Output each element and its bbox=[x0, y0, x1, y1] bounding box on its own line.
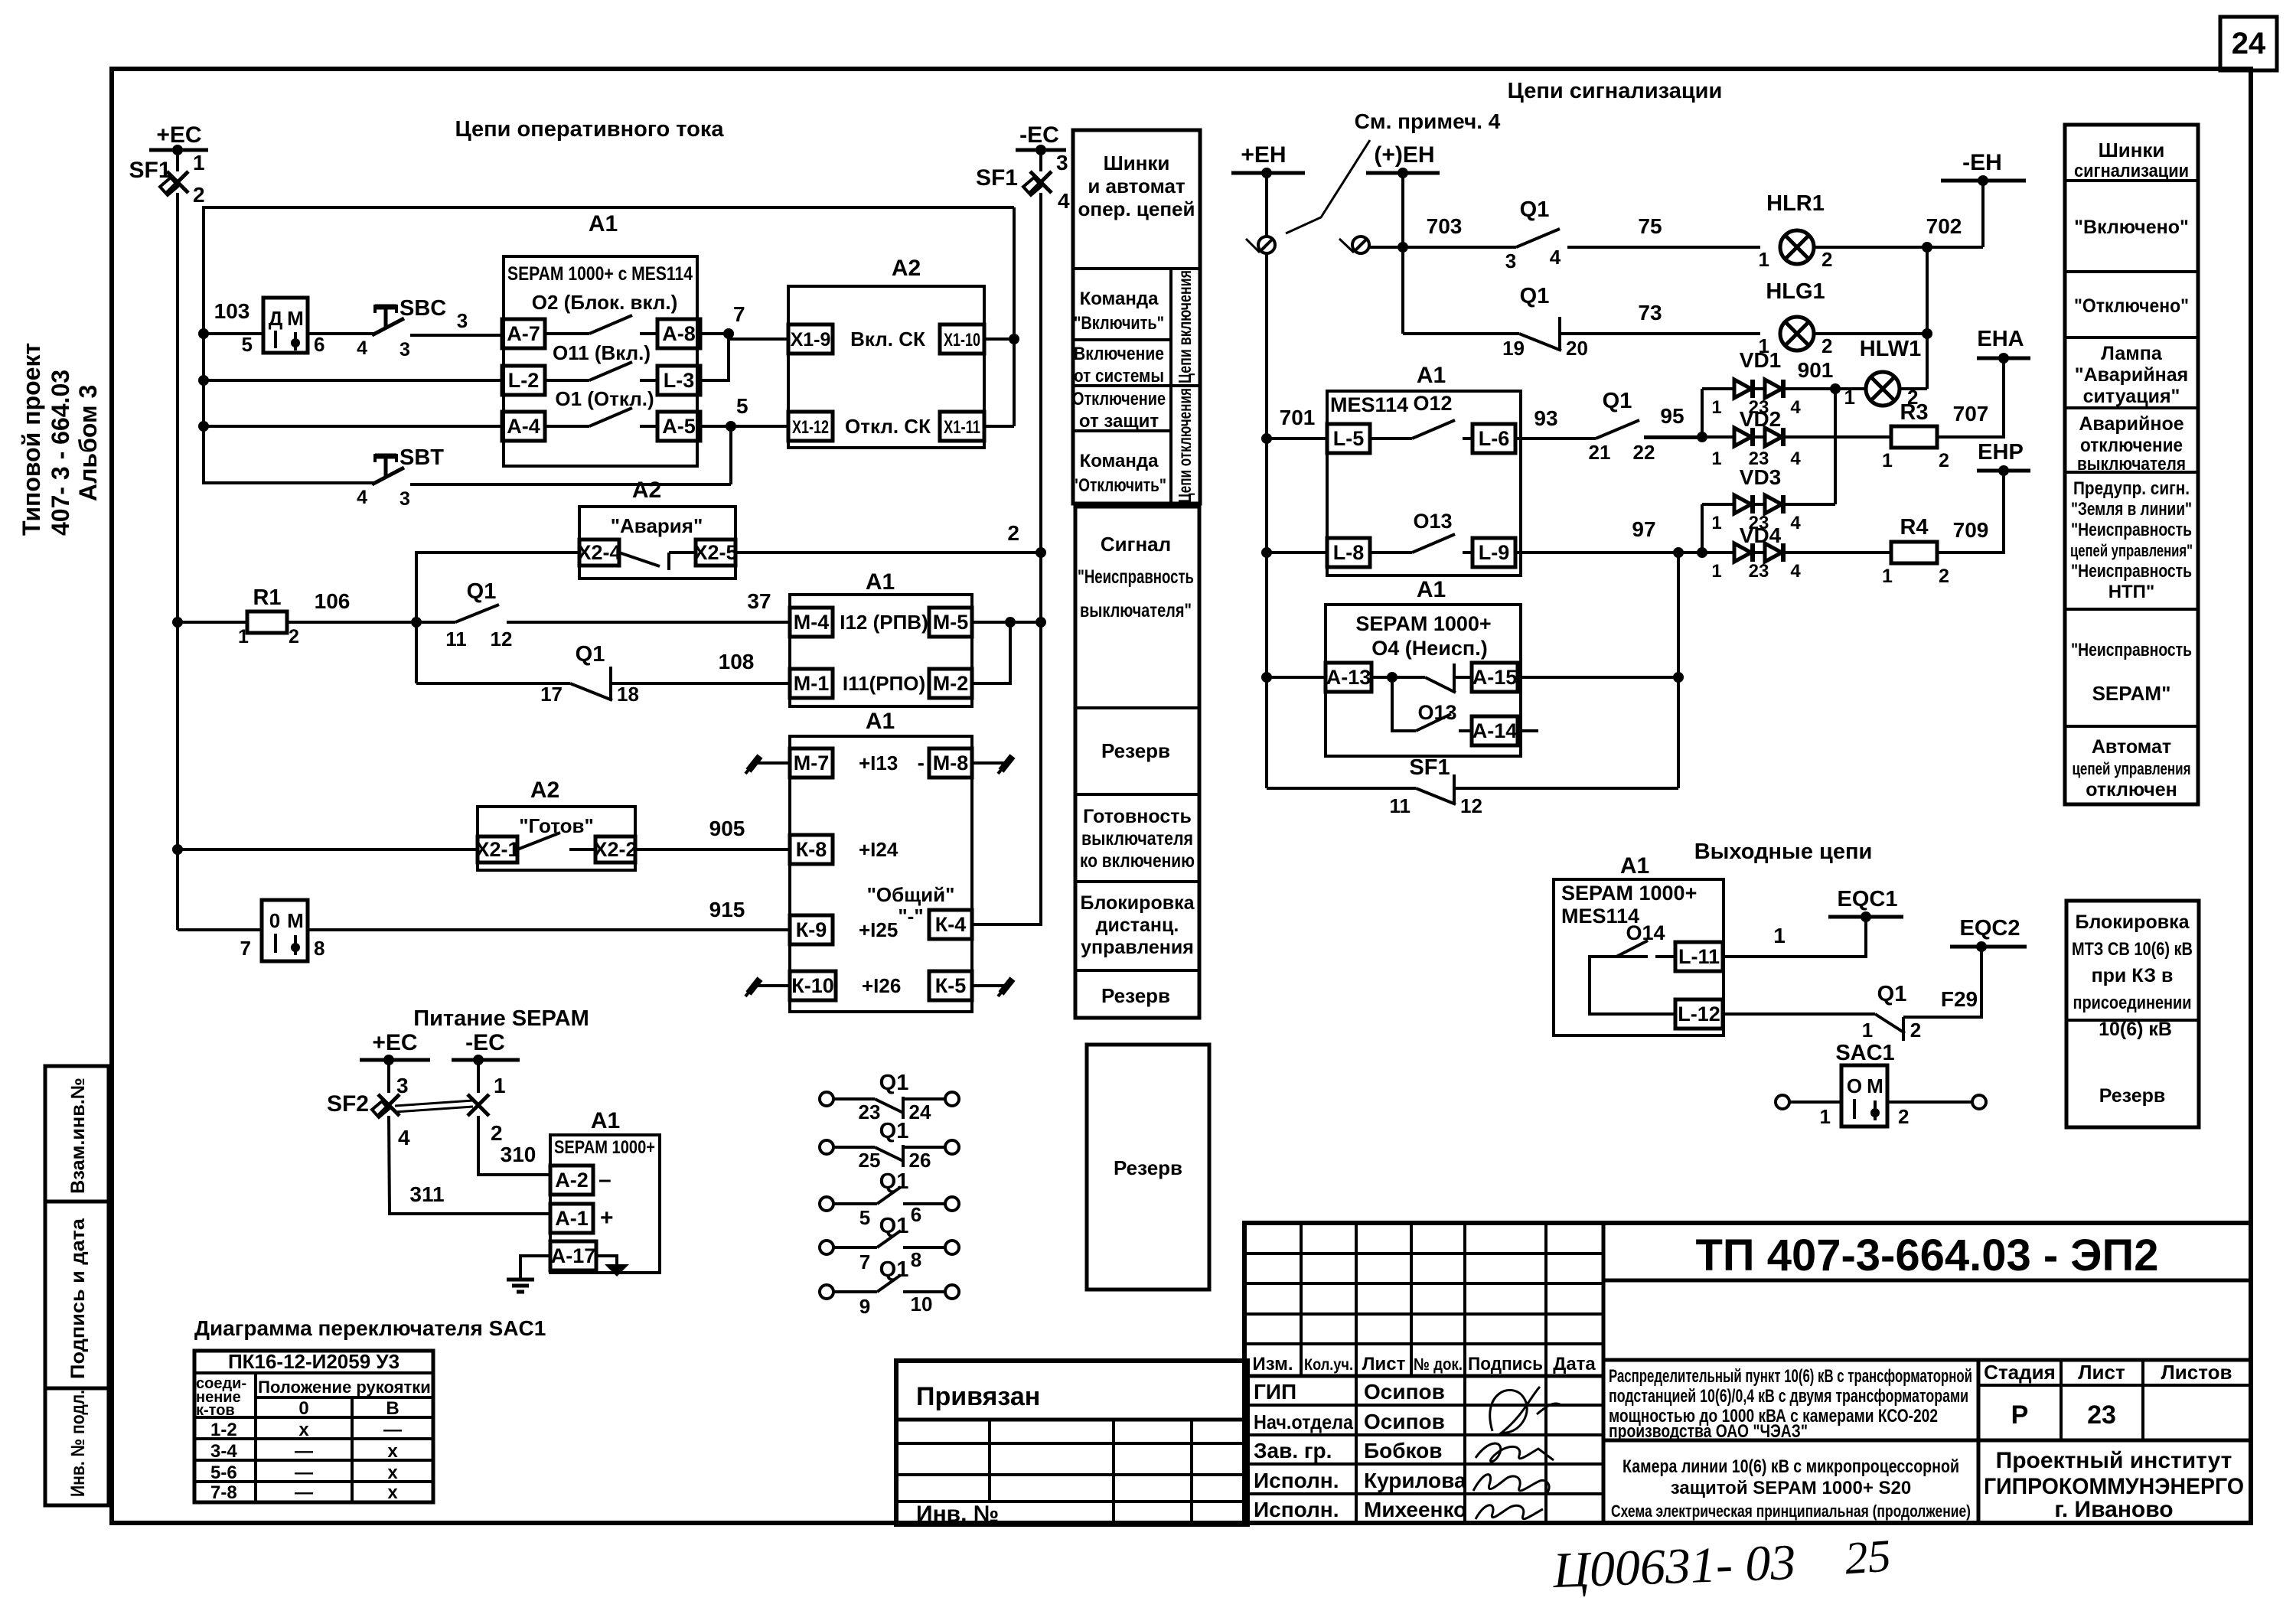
terminal L-12 bbox=[1675, 999, 1723, 1029]
bus +EC power bbox=[360, 1058, 430, 1062]
svg-text:Предупр. сигн.: Предупр. сигн. bbox=[2073, 478, 2190, 499]
wire L-3 up to node 7 bbox=[700, 334, 729, 380]
terminal A-8 bbox=[657, 319, 700, 348]
svg-text:К-4: К-4 bbox=[935, 913, 967, 936]
wire K-4 to right bus bbox=[972, 622, 1041, 924]
cell Gotovnost bbox=[1075, 793, 1199, 796]
terminal L-2 bbox=[502, 366, 545, 395]
svg-text:+ЕН: +ЕН bbox=[1241, 142, 1286, 168]
wire M-5 M-2 junction to right bus bbox=[972, 621, 1041, 624]
svg-text:L-2: L-2 bbox=[508, 369, 540, 392]
signature rows grid bbox=[1244, 1404, 1603, 1407]
svg-text:701: 701 bbox=[1280, 406, 1316, 429]
svg-text:21: 21 bbox=[1589, 441, 1611, 464]
ground left of A-17 bbox=[520, 1256, 550, 1280]
svg-text:Положение рукоятки: Положение рукоятки bbox=[258, 1378, 431, 1397]
relay box A1 SEPAM power bbox=[550, 1135, 660, 1273]
svg-text:Типовой проект: Типовой проект bbox=[18, 343, 45, 536]
wire 1 to EQC1 bbox=[1723, 917, 1866, 957]
svg-text:707: 707 bbox=[1953, 402, 1989, 426]
terminal L-3 bbox=[657, 366, 700, 395]
wire HLG1 to vert 2518 bbox=[1814, 332, 1927, 335]
row 5-6 bbox=[194, 1459, 433, 1462]
svg-text:К-10: К-10 bbox=[791, 974, 834, 997]
contact X2-4 X2-5 changeover bbox=[619, 553, 660, 566]
wire X1-10 to rail1325 bbox=[984, 337, 1014, 341]
wire 37 to M-4 bbox=[507, 621, 790, 624]
svg-text:VD2: VD2 bbox=[1740, 407, 1781, 431]
svg-text:Х2-1: Х2-1 bbox=[475, 838, 519, 861]
cell Vklyuchenie ot sistemy bbox=[1073, 384, 1200, 387]
cell Blokirovka dist bbox=[1075, 880, 1199, 883]
svg-text:Исполн.: Исполн. bbox=[1254, 1469, 1339, 1492]
svg-text:75: 75 bbox=[1638, 214, 1662, 238]
wire row L-2 bbox=[204, 379, 502, 382]
lamp HLR1 bbox=[1780, 230, 1814, 264]
svg-text:—: — bbox=[295, 1462, 313, 1483]
svg-text:3: 3 bbox=[400, 488, 410, 510]
wire main left bus from SF1 down bbox=[176, 193, 179, 930]
wire bus to X2-1 bbox=[178, 848, 478, 851]
contact O13 lower bbox=[1416, 714, 1451, 731]
svg-text:Изм.: Изм. bbox=[1252, 1354, 1293, 1374]
svg-text:MES114: MES114 bbox=[1330, 393, 1408, 416]
node +EH 701 row bbox=[1261, 433, 1272, 444]
wire row A-4 bbox=[204, 425, 502, 428]
svg-text:О: О bbox=[1847, 1074, 1862, 1097]
svg-text:А-8: А-8 bbox=[662, 322, 696, 345]
svg-text:2: 2 bbox=[1821, 334, 1832, 357]
wire 702 to -EH bbox=[1814, 246, 1983, 249]
terminal M-8 bbox=[929, 748, 972, 778]
wire +EH bus down bbox=[1265, 173, 1268, 788]
contact Q1 17-18 NC bbox=[416, 682, 570, 685]
svg-text:3: 3 bbox=[457, 309, 468, 332]
svg-text:х: х bbox=[387, 1462, 398, 1483]
svg-text:4: 4 bbox=[1058, 189, 1070, 213]
svg-text:905: 905 bbox=[709, 817, 745, 840]
wire 709 to EHP bbox=[1937, 471, 2004, 553]
svg-text:23: 23 bbox=[1749, 561, 1769, 582]
svg-text:1: 1 bbox=[1820, 1105, 1831, 1128]
signature squiggle 4 bbox=[1476, 1505, 1543, 1519]
relay box A2 switchgear bbox=[788, 286, 984, 448]
svg-text:отключение: отключение bbox=[2080, 435, 2183, 456]
svg-text:L-8: L-8 bbox=[1333, 541, 1365, 564]
svg-text:HLW1: HLW1 bbox=[1860, 337, 1922, 361]
svg-text:-ЕС: -ЕС bbox=[465, 1030, 505, 1055]
privyazan grid bbox=[988, 1420, 991, 1502]
terminal X1-12 bbox=[788, 412, 833, 441]
svg-text:Питание SEPAM: Питание SEPAM bbox=[413, 1006, 589, 1031]
svg-text:М: М bbox=[1867, 1074, 1883, 1097]
svg-text:ТП 407-3-664.03 - ЭП2: ТП 407-3-664.03 - ЭП2 bbox=[1695, 1231, 2158, 1280]
svg-text:Осипов: Осипов bbox=[1364, 1410, 1445, 1433]
cell Lampa Avariynaya bbox=[2065, 336, 2198, 339]
bus +EH bbox=[1231, 171, 1305, 175]
vertical 2518 from 702 to HLW1 bbox=[1926, 247, 1929, 389]
svg-text:SEPAM 1000+ с MES114: SEPAM 1000+ с MES114 bbox=[507, 263, 693, 285]
svg-text:R1: R1 bbox=[253, 585, 281, 610]
wire X1-11 to rail1325 bbox=[984, 425, 1014, 428]
svg-text:VD3: VD3 bbox=[1740, 465, 1781, 489]
svg-text:4: 4 bbox=[398, 1126, 410, 1149]
terminal X1-9 bbox=[788, 324, 833, 354]
svg-text:SF2: SF2 bbox=[327, 1091, 369, 1117]
svg-text:К-8: К-8 bbox=[796, 838, 827, 861]
ladder upper left vertical bbox=[1701, 389, 1704, 437]
svg-text:VD1: VD1 bbox=[1740, 348, 1781, 372]
svg-text:Х1-12: Х1-12 bbox=[792, 417, 829, 438]
svg-text:Стадия: Стадия bbox=[1984, 1361, 2056, 1384]
svg-text:73: 73 bbox=[1638, 301, 1662, 324]
svg-text:SEPAM 1000+: SEPAM 1000+ bbox=[1561, 882, 1697, 905]
svg-text:А-5: А-5 bbox=[662, 415, 696, 438]
svg-text:А2: А2 bbox=[632, 478, 661, 503]
svg-text:"Неисправность: "Неисправность bbox=[1078, 566, 1194, 588]
svg-text:А-13: А-13 bbox=[1326, 666, 1371, 689]
svg-text:11: 11 bbox=[445, 628, 467, 651]
svg-text:Сигнал: Сигнал bbox=[1101, 533, 1171, 556]
svg-text:Михеенко: Михеенко bbox=[1364, 1498, 1466, 1521]
svg-text:SEPAM 1000+: SEPAM 1000+ bbox=[554, 1137, 655, 1158]
svg-text:Лампа: Лампа bbox=[2101, 343, 2163, 364]
svg-text:2: 2 bbox=[1910, 1019, 1921, 1042]
svg-text:Блокировка: Блокировка bbox=[2076, 911, 2190, 933]
node main bus R1 row bbox=[172, 617, 183, 628]
svg-text:Резерв: Резерв bbox=[2099, 1085, 2166, 1107]
svg-text:4: 4 bbox=[1790, 448, 1801, 469]
svg-text:93: 93 bbox=[1534, 406, 1557, 430]
svg-text:L-3: L-3 bbox=[664, 369, 695, 392]
svg-text:108: 108 bbox=[719, 650, 755, 673]
wire 707 to EHA bbox=[1937, 358, 2004, 437]
svg-text:SF1: SF1 bbox=[1409, 755, 1450, 780]
svg-text:Цепи отключения: Цепи отключения bbox=[1175, 388, 1195, 503]
svg-text:407- 3 - 664.03: 407- 3 - 664.03 bbox=[47, 370, 74, 536]
svg-text:ситуация": ситуация" bbox=[2083, 386, 2180, 407]
svg-text:А2: А2 bbox=[530, 778, 559, 803]
breaker SF2 pole 1-2 bbox=[477, 1060, 480, 1093]
svg-text:Привязан: Привязан bbox=[916, 1382, 1040, 1411]
contact Gotov bbox=[517, 833, 560, 849]
svg-text:11: 11 bbox=[1390, 794, 1411, 817]
svg-text:Листов: Листов bbox=[2161, 1361, 2232, 1384]
terminal X1-11 bbox=[940, 412, 984, 441]
svg-text:Резерв: Резерв bbox=[1101, 739, 1170, 762]
svg-text:SBC: SBC bbox=[400, 296, 446, 321]
svg-text:М-4: М-4 bbox=[794, 611, 830, 634]
cell Avariynoe otklyuchenie bbox=[2065, 406, 2198, 409]
svg-text:О2 (Блок. вкл.): О2 (Блок. вкл.) bbox=[532, 291, 677, 314]
svg-text:ГИПРОКОММУНЭНЕРГО: ГИПРОКОММУНЭНЕРГО bbox=[1984, 1474, 2244, 1499]
right vertical loop x2193 bbox=[1677, 553, 1680, 788]
cable arrow K-5 bbox=[972, 984, 1007, 987]
svg-text:R4: R4 bbox=[1900, 515, 1928, 540]
svg-text:0: 0 bbox=[298, 1398, 308, 1419]
breaker SF2 pole 3-4 bbox=[387, 1060, 390, 1093]
node R1 row on loop bbox=[411, 617, 422, 628]
svg-text:от защит: от защит bbox=[1079, 411, 1159, 432]
svg-text:О12: О12 bbox=[1413, 392, 1452, 415]
svg-text:37: 37 bbox=[747, 589, 771, 613]
svg-text:Шинки: Шинки bbox=[2099, 139, 2165, 161]
svg-text:702: 702 bbox=[1926, 214, 1962, 238]
terminal X2-4 bbox=[579, 540, 619, 566]
svg-text:"Неисправность: "Неисправность bbox=[2071, 640, 2192, 660]
svg-text:Готовность: Готовность bbox=[1083, 806, 1192, 827]
svg-text:А1: А1 bbox=[589, 211, 618, 236]
svg-text:Цепи оперативного тока: Цепи оперативного тока bbox=[455, 117, 724, 142]
bus (+)EH bbox=[1366, 171, 1440, 175]
svg-text:20: 20 bbox=[1566, 337, 1588, 360]
svg-text:703: 703 bbox=[1427, 214, 1463, 238]
svg-text:SEPAM 1000+: SEPAM 1000+ bbox=[1355, 612, 1491, 635]
svg-text:К-9: К-9 bbox=[796, 918, 827, 941]
svg-text:Q1: Q1 bbox=[1520, 284, 1550, 308]
svg-text:Инв. №: Инв. № bbox=[916, 1502, 999, 1527]
terminal A-15 bbox=[1472, 663, 1518, 692]
vertical strip Tsepi vklyucheniya bbox=[1169, 269, 1172, 504]
terminal A-13 bbox=[1326, 663, 1371, 692]
cable arrow K-10 bbox=[755, 984, 790, 987]
svg-text:1: 1 bbox=[1711, 513, 1721, 533]
resistor R4 bbox=[1891, 542, 1937, 563]
wire (+)EH vert to 73 row bbox=[1401, 247, 1404, 334]
svg-text:1: 1 bbox=[1862, 1019, 1873, 1042]
svg-text:+ЕС: +ЕС bbox=[372, 1030, 417, 1055]
terminal L-6 bbox=[1473, 424, 1515, 453]
svg-text:х: х bbox=[387, 1482, 398, 1503]
contact Q1 3-4 bbox=[1516, 229, 1560, 247]
svg-text:Дата: Дата bbox=[1553, 1354, 1596, 1374]
svg-text:—: — bbox=[295, 1482, 313, 1503]
svg-text:5: 5 bbox=[736, 394, 748, 418]
wire rail 271 to X1-10 X1-11 bbox=[1013, 207, 1016, 426]
cell Rezerv 1 bbox=[1075, 706, 1199, 709]
description cell bbox=[1603, 1358, 2251, 1362]
svg-text:2: 2 bbox=[289, 626, 299, 647]
breaker SF1 pole 1-2 bbox=[176, 150, 179, 171]
svg-text:"-": "-" bbox=[898, 905, 923, 928]
svg-text:103: 103 bbox=[214, 299, 250, 323]
svg-text:М-2: М-2 bbox=[933, 672, 969, 695]
svg-text:3: 3 bbox=[1505, 249, 1516, 272]
svg-text:+I13: +I13 bbox=[859, 752, 898, 774]
resistor R1 bbox=[247, 611, 287, 633]
svg-text:7-8: 7-8 bbox=[210, 1482, 237, 1503]
svg-text:подстанцией 10(6)/0,4 кВ с дву: подстанцией 10(6)/0,4 кВ с двумя трансфо… bbox=[1609, 1386, 1968, 1407]
revision table rows bbox=[1244, 1252, 1603, 1255]
bus +EC bbox=[149, 148, 208, 152]
svg-text:М-1: М-1 bbox=[794, 672, 830, 695]
wire (+)EH down to 703 bbox=[1401, 173, 1404, 247]
terminal A-4 bbox=[502, 412, 545, 441]
svg-text:SF1: SF1 bbox=[976, 165, 1018, 191]
terminal M-2 bbox=[929, 669, 972, 698]
table blokirovka MTZ bbox=[2066, 901, 2199, 1127]
wire X2-5 to right bus 2 bbox=[735, 551, 1041, 554]
svg-text:2: 2 bbox=[1007, 521, 1019, 545]
standalone box Rezerv bbox=[1087, 1045, 1209, 1290]
svg-text:Схема электрическая принципиал: Схема электрическая принципиальная (прод… bbox=[1611, 1502, 1971, 1521]
svg-text:Включение: Включение bbox=[1074, 344, 1164, 364]
svg-text:17: 17 bbox=[540, 683, 563, 706]
svg-text:выключателя": выключателя" bbox=[1080, 600, 1192, 621]
svg-text:Р: Р bbox=[2011, 1400, 2029, 1430]
svg-text:26: 26 bbox=[909, 1149, 931, 1172]
svg-text:L-6: L-6 bbox=[1479, 427, 1510, 450]
wire L-8 row bbox=[1267, 551, 1327, 554]
svg-text:106: 106 bbox=[315, 589, 351, 613]
svg-text:Х2-5: Х2-5 bbox=[693, 541, 737, 564]
left margin box Podpis i data bbox=[45, 1202, 109, 1388]
bus EHA bbox=[1977, 357, 2030, 360]
svg-text:709: 709 bbox=[1953, 518, 1989, 542]
svg-text:1-2: 1-2 bbox=[210, 1420, 237, 1440]
terminal M-4 bbox=[790, 608, 833, 637]
svg-text:Лист: Лист bbox=[1362, 1354, 1406, 1374]
wire negative rail y271 bbox=[204, 207, 1014, 484]
svg-text:2: 2 bbox=[1898, 1105, 1909, 1128]
relay box A2 Gotov bbox=[478, 807, 635, 870]
svg-text:Q1: Q1 bbox=[1520, 197, 1550, 222]
svg-text:Команда: Команда bbox=[1080, 289, 1159, 309]
ground right of A-17 (chassis) bbox=[596, 1256, 617, 1264]
terminal K-10 bbox=[790, 971, 836, 1000]
contact Q1 19-20 NC bbox=[1519, 334, 1561, 351]
svg-text:О4 (Неисп.): О4 (Неисп.) bbox=[1371, 637, 1487, 660]
svg-text:2: 2 bbox=[491, 1121, 503, 1145]
svg-text:3: 3 bbox=[1056, 151, 1068, 174]
switch SAC1 upper (D M 5-6) bbox=[263, 298, 308, 353]
terminal A-17 bbox=[550, 1241, 596, 1270]
terminal M-5 bbox=[929, 608, 972, 637]
svg-text:Команда: Команда bbox=[1080, 451, 1159, 471]
svg-text:Q1: Q1 bbox=[1603, 389, 1632, 413]
svg-text:выключателя: выключателя bbox=[1081, 828, 1193, 849]
svg-text:1: 1 bbox=[1759, 248, 1769, 271]
svg-text:А1: А1 bbox=[866, 569, 895, 595]
wire 901 node to HLW1 bbox=[1835, 387, 1866, 390]
terminal L-9 bbox=[1473, 538, 1515, 567]
page number 24 box bbox=[2220, 17, 2277, 70]
revision header row bbox=[1244, 1374, 1603, 1378]
svg-text:+: + bbox=[600, 1205, 614, 1231]
svg-text:А-2: А-2 bbox=[555, 1169, 589, 1192]
terminal M-1 bbox=[790, 669, 833, 698]
svg-text:М: М bbox=[287, 307, 304, 330]
breaker SF1 pole 3-4 bbox=[1039, 150, 1042, 171]
table SAC1 diagram bbox=[194, 1351, 433, 1502]
svg-text:901: 901 bbox=[1798, 358, 1834, 382]
svg-text:1: 1 bbox=[1882, 450, 1893, 471]
svg-text:Откл. СК: Откл. СК bbox=[845, 415, 931, 438]
relay box A1 SEPAM O4 bbox=[1326, 605, 1521, 756]
svg-text:–: – bbox=[598, 1167, 612, 1192]
svg-text:3-4: 3-4 bbox=[210, 1441, 237, 1462]
svg-text:1: 1 bbox=[1711, 448, 1721, 469]
svg-text:2: 2 bbox=[1939, 450, 1949, 471]
svg-text:"Земля в линии": "Земля в линии" bbox=[2071, 499, 2192, 520]
contact O12 bbox=[1370, 437, 1412, 440]
svg-text:Х1-9: Х1-9 bbox=[791, 329, 831, 351]
privyazan block outline bbox=[896, 1361, 1247, 1524]
terminal X2-2 bbox=[595, 836, 635, 862]
svg-text:Цепи сигнализации: Цепи сигнализации bbox=[1508, 79, 1723, 103]
svg-text:А1: А1 bbox=[866, 709, 895, 734]
contact O4 bbox=[1371, 676, 1392, 679]
relay box A1 SEPAM MES114 output bbox=[1554, 879, 1724, 1035]
svg-text:ЕНА: ЕНА bbox=[1977, 327, 2024, 351]
svg-text:Курилова: Курилова bbox=[1364, 1469, 1466, 1492]
svg-text:4: 4 bbox=[1550, 246, 1561, 269]
node O4 branch bbox=[1387, 672, 1397, 683]
svg-text:А1: А1 bbox=[1417, 363, 1446, 388]
stadiya list listov header bbox=[2060, 1360, 2063, 1440]
terminal L-11 bbox=[1675, 942, 1723, 971]
svg-text:г. Иваново: г. Иваново bbox=[2054, 1497, 2173, 1522]
svg-text:х: х bbox=[387, 1441, 398, 1462]
relay box A1 MES114 bbox=[1327, 391, 1521, 576]
relay box A1 RPV RPO bbox=[790, 595, 972, 706]
svg-text:Q1: Q1 bbox=[576, 642, 605, 667]
svg-text:19: 19 bbox=[1502, 337, 1525, 360]
svg-text:R3: R3 bbox=[1900, 400, 1928, 425]
svg-text:"Неисправность: "Неисправность bbox=[2071, 520, 2192, 540]
svg-text:Выходные цепи: Выходные цепи bbox=[1694, 840, 1873, 864]
svg-text:3: 3 bbox=[400, 339, 410, 360]
svg-text:Q1: Q1 bbox=[879, 1119, 909, 1143]
wire HLW1 right corner bbox=[1900, 387, 1927, 390]
terminal A-7 bbox=[502, 319, 545, 348]
left margin box Inv N podl bbox=[45, 1388, 109, 1505]
svg-text:12: 12 bbox=[491, 628, 513, 651]
svg-text:М-5: М-5 bbox=[933, 611, 969, 634]
svg-text:310: 310 bbox=[501, 1143, 536, 1166]
svg-text:I12 (РПВ): I12 (РПВ) bbox=[840, 611, 928, 634]
wire 905 to K-8 bbox=[635, 848, 790, 851]
vertical 901 to VD3 bbox=[1834, 389, 1837, 504]
svg-text:х: х bbox=[298, 1420, 309, 1440]
lamp HLG1 bbox=[1780, 317, 1814, 351]
svg-text:Шинки: Шинки bbox=[1104, 152, 1170, 174]
terminal K-4 bbox=[929, 910, 972, 939]
node rail-row 103 bbox=[198, 328, 209, 339]
svg-text:1: 1 bbox=[1711, 561, 1721, 582]
wire +EH down to A-13 row bbox=[1265, 553, 1268, 677]
svg-text:М: М bbox=[287, 909, 304, 932]
svg-text:EQC1: EQC1 bbox=[1838, 887, 1898, 911]
terminal M-7 bbox=[790, 748, 833, 778]
SF2 mechanical link bbox=[395, 1100, 473, 1106]
svg-text:"Включить": "Включить" bbox=[1074, 313, 1164, 334]
svg-text:"Аварийная: "Аварийная bbox=[2075, 364, 2188, 386]
svg-text:1: 1 bbox=[494, 1074, 506, 1097]
svg-text:цепей управления": цепей управления" bbox=[2070, 541, 2193, 560]
wire R1 to loop node bbox=[287, 621, 416, 624]
svg-text:"Авария": "Авария" bbox=[611, 514, 703, 537]
cell Rezerv blokirovka bbox=[2066, 1019, 2199, 1022]
svg-text:Цепи включения: Цепи включения bbox=[1175, 270, 1195, 383]
svg-text:L-12: L-12 bbox=[1678, 1003, 1720, 1025]
wire SBT to node5 bbox=[410, 483, 731, 486]
bus -EC power bbox=[452, 1058, 520, 1062]
svg-text:Альбом 3: Альбом 3 bbox=[74, 385, 102, 501]
svg-text:95: 95 bbox=[1660, 404, 1684, 428]
svg-text:№ док.: № док. bbox=[1414, 1355, 1463, 1374]
svg-text:5: 5 bbox=[242, 333, 253, 356]
